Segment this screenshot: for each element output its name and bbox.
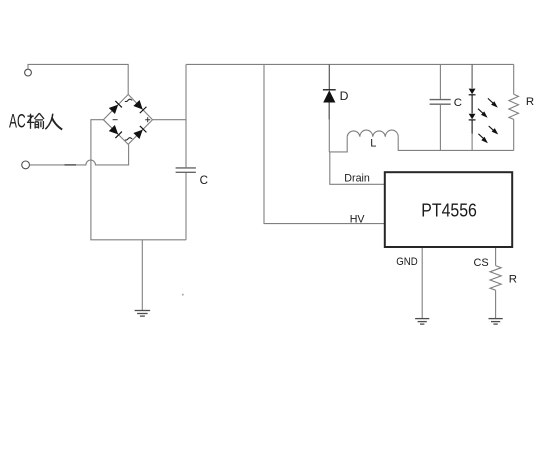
wire (drain pin wire to chip)	[330, 152, 385, 184]
wire (drain node horizontal to inductor)	[329, 137, 347, 152]
label AC输入	[9, 112, 62, 133]
bridge mark ~ (bottom AC)	[125, 138, 132, 140]
bridge mark ~ (top AC)	[125, 99, 132, 101]
bridge diode bottom-right (anode bottom vertex, cathode right vertex)	[133, 126, 146, 139]
wire (resistor R1 branch from top rail)	[513, 64, 515, 94]
wire (AC bottom terminal to bridge bottom vertex, with hop over DC- wire)	[30, 144, 129, 165]
svg-text:HV: HV	[350, 214, 366, 226]
svg-text:PT4556: PT4556	[421, 199, 477, 220]
svg-text:Drain: Drain	[344, 173, 370, 185]
bridge mark - (DC minus, left)	[113, 119, 118, 121]
svg-text:R: R	[509, 274, 517, 286]
ground GND3	[489, 319, 503, 325]
inductor L	[347, 130, 398, 137]
wire (diode D branch: top rail to cathode)	[328, 64, 330, 89]
op-amp U1 PT4556 (controller chip body)	[385, 172, 512, 247]
bridge diode bottom-left (anode left vertex, cathode bottom vertex)	[109, 125, 122, 138]
wire (resistor R1 bottom to return rail)	[513, 119, 515, 150]
wire (LED branch from top rail)	[471, 64, 473, 88]
wire (resistor R2 to ground)	[495, 290, 497, 318]
wire (capacitor C1 bottom to bottom rail)	[185, 173, 187, 240]
svg-text:D: D	[340, 89, 349, 103]
LED D1 (pointing down)	[469, 89, 476, 114]
svg-text:R: R	[526, 96, 534, 108]
resistor R2 (current sense)	[490, 266, 501, 291]
wire (darker overlap segment on AC bottom wire)	[65, 164, 77, 166]
bridge mark + (DC plus, right)	[145, 117, 150, 122]
wire (AC top terminal to bridge top vertex)	[28, 64, 128, 94]
diode D (freewheeling, pointing up)	[323, 90, 336, 120]
terminal J2 (AC bottom)	[22, 161, 30, 169]
wire (bridge DC- left vertex down to bottom rail)	[91, 120, 186, 240]
svg-text:C: C	[200, 174, 208, 187]
svg-text:C: C	[454, 97, 462, 109]
wire (ground stub from bottom rail)	[141, 240, 143, 310]
wire (DC+ node vertical, top rail corner down to capacitor C1)	[185, 64, 187, 167]
bridge diode top-right (anode top vertex, cathode right vertex)	[133, 100, 146, 113]
capacitor C2 (output)	[430, 100, 451, 105]
ground GND2	[415, 319, 429, 325]
wire (chip GND pin down)	[421, 248, 423, 318]
wire (diode D anode down to drain node)	[328, 103, 330, 152]
svg-text:AC: AC	[9, 112, 26, 133]
ground GND1	[135, 311, 151, 317]
bridge diode top-left (anode left vertex, cathode top vertex)	[109, 101, 122, 114]
wire (inductor right end down to output return rail)	[398, 137, 514, 151]
wire (chip CS pin down to resistor R2)	[495, 248, 497, 266]
wire (top DC+ rail)	[186, 63, 514, 65]
wire (HV branch from top rail to chip HV pin)	[264, 64, 385, 223]
svg-text:CS: CS	[474, 257, 490, 269]
svg-text:GND: GND	[396, 256, 417, 268]
bridge rectifier BR1 (diamond outline)	[103, 94, 152, 144]
resistor R1 (LED ballast)	[509, 94, 519, 119]
terminal J1 (AC top)	[25, 69, 32, 76]
stray dot artifact	[182, 294, 184, 296]
LED D2 (pointing down)	[469, 114, 476, 134]
svg-text:L: L	[370, 138, 376, 150]
LED D1 emission arrows	[478, 98, 498, 117]
wire (output cap C2 bottom to return rail)	[439, 105, 441, 151]
capacitor C1 (smoothing)	[176, 168, 196, 172]
wire (bridge DC+ right vertex to smoothing cap node)	[153, 119, 187, 121]
wire (LED bottom to return rail)	[471, 134, 473, 151]
LED D2 emission arrows	[478, 126, 498, 143]
wire (output cap C2 branch from top rail)	[439, 64, 441, 99]
